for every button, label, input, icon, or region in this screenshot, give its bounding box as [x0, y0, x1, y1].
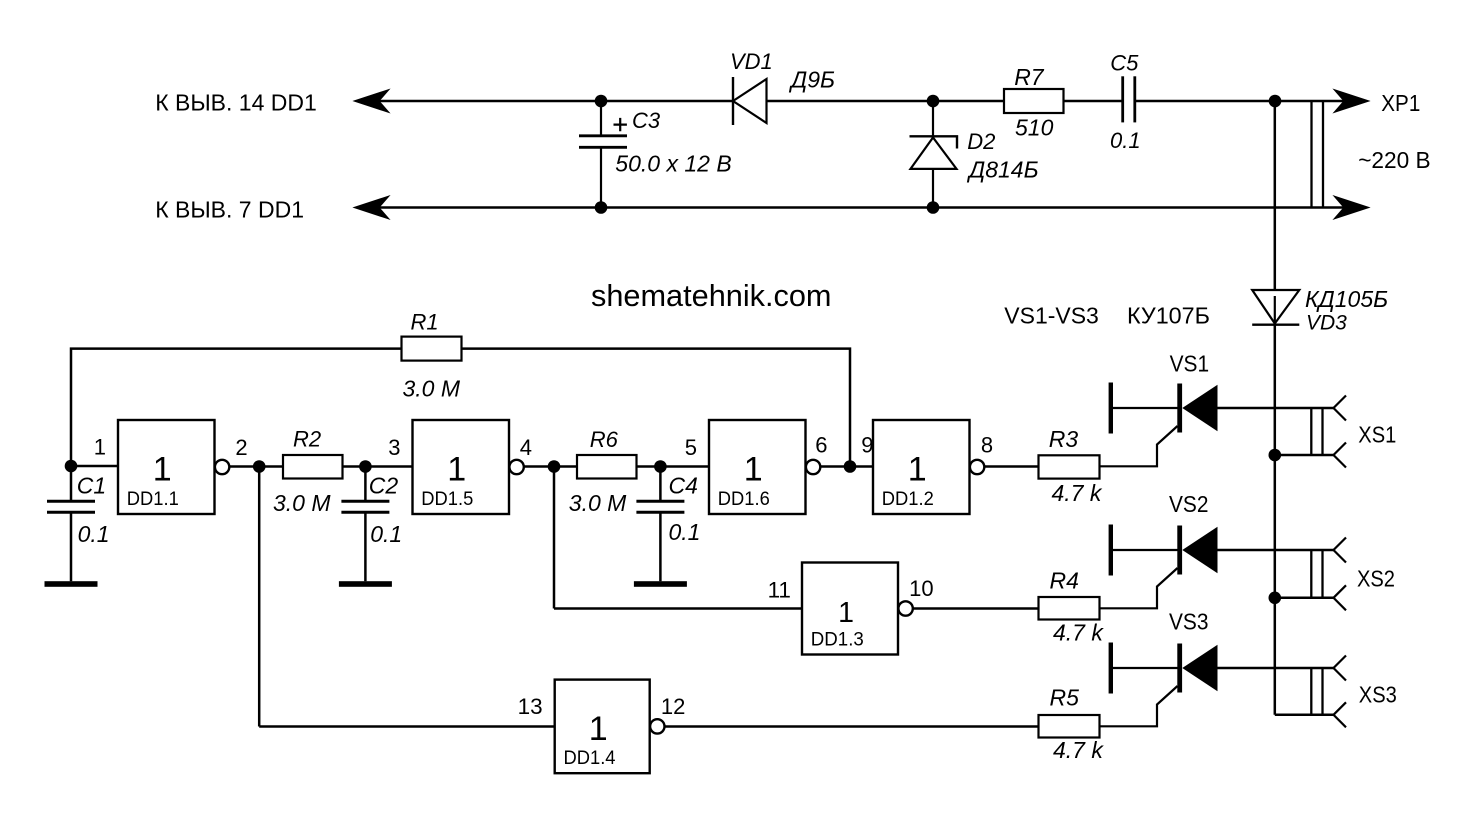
wire node to C4 [659, 467, 662, 502]
svg-text:XS3: XS3 [1359, 681, 1397, 707]
wire to DD1.4 input [259, 725, 555, 728]
logic inverter DD1.4 [555, 680, 665, 774]
logic inverter DD1.6 [709, 420, 820, 514]
node 4 junction [548, 460, 561, 473]
svg-text:3.0 M: 3.0 M [403, 375, 461, 401]
svg-text:11: 11 [768, 577, 791, 602]
resistor R5 [1039, 715, 1100, 738]
thyristor VS3 (sensor pad + SCR) [1100, 643, 1218, 727]
svg-text:C4: C4 [669, 473, 698, 499]
junction C3 top [595, 95, 608, 108]
resistor R6 [577, 455, 637, 479]
svg-text:510: 510 [1015, 115, 1054, 141]
wire node to C2 [364, 467, 367, 502]
svg-text:4: 4 [520, 435, 532, 460]
svg-text:R5: R5 [1050, 685, 1080, 711]
svg-text:C2: C2 [369, 472, 399, 498]
svg-text:К ВЫВ. 7 DD1: К ВЫВ. 7 DD1 [155, 197, 304, 223]
svg-text:shematehnik.com: shematehnik.com [591, 279, 832, 313]
wire VS1 anode to XS1 [1218, 407, 1334, 410]
wire R1 left to node 1 [71, 349, 402, 466]
svg-text:1: 1 [589, 710, 608, 748]
svg-text:C1: C1 [77, 472, 106, 498]
svg-text:XS1: XS1 [1358, 421, 1396, 447]
resistor R3 [1039, 455, 1100, 478]
svg-text:DD1.3: DD1.3 [811, 630, 864, 651]
svg-text:DD1.6: DD1.6 [718, 489, 770, 510]
svg-text:XS2: XS2 [1357, 565, 1395, 591]
svg-text:DD1.1: DD1.1 [127, 489, 179, 510]
svg-text:12: 12 [661, 694, 685, 719]
wire VS3 anode to XS3 [1218, 667, 1334, 670]
svg-text:VD3: VD3 [1306, 312, 1347, 335]
svg-text:D2: D2 [967, 129, 995, 154]
capacitor C1 [47, 501, 95, 512]
wire DD1.6 output to DD1.2 input [820, 465, 873, 468]
resistor R7 [1004, 89, 1064, 113]
svg-text:КУ107Б: КУ107Б [1127, 302, 1210, 328]
wire R1 right to node 9 [462, 349, 851, 467]
ground under C2 [339, 581, 392, 587]
wire to DD1.3 input [554, 607, 802, 610]
logic inverter DD1.1 [118, 420, 229, 514]
wire DD1.5 output to R6 [524, 465, 577, 468]
svg-text:C3: C3 [632, 108, 661, 133]
arrow to DD1 pin 7 [354, 196, 389, 219]
svg-text:3.0 M: 3.0 M [273, 490, 331, 516]
svg-text:VS1: VS1 [1170, 350, 1210, 376]
svg-text:DD1.4: DD1.4 [564, 748, 616, 769]
zener diode D2 [910, 101, 958, 208]
svg-text:VS2: VS2 [1169, 491, 1209, 517]
diode VD1 [733, 77, 767, 125]
svg-text:13: 13 [518, 694, 543, 719]
svg-text:4.7 k: 4.7 k [1053, 737, 1104, 763]
wire DD1.4 output to R5 [665, 725, 1039, 728]
svg-text:2: 2 [235, 435, 247, 460]
capacitor C2 [341, 501, 389, 512]
wire right bus vertical [1274, 101, 1277, 715]
arrow XP1 top contact [1334, 90, 1369, 113]
svg-text:0.1: 0.1 [1110, 128, 1141, 153]
svg-text:КД105Б: КД105Б [1305, 286, 1388, 312]
wire C1 to ground [70, 512, 73, 581]
junction D2 bottom [927, 201, 940, 214]
wire top rail left [377, 100, 733, 103]
wire bus to XS1 bottom [1275, 454, 1334, 457]
junction D2 top [927, 95, 940, 108]
socket XS1 [1311, 396, 1346, 468]
svg-text:VD1: VD1 [730, 49, 773, 74]
plug XP1 [1312, 100, 1324, 208]
svg-text:0.1: 0.1 [370, 521, 402, 547]
wire bus corner to XS3 bottom [1275, 714, 1334, 717]
node 1 junction [65, 460, 78, 473]
svg-text:R6: R6 [590, 427, 619, 452]
wire R2 to DD1.5 input [343, 465, 413, 468]
svg-text:R4: R4 [1050, 568, 1079, 594]
svg-text:1: 1 [153, 451, 172, 489]
wire R7 to C5 [1064, 100, 1123, 103]
svg-text:1: 1 [908, 451, 927, 489]
ground under C1 [45, 581, 98, 587]
svg-text:1: 1 [94, 435, 106, 460]
logic inverter DD1.2 [873, 420, 984, 514]
svg-text:1: 1 [838, 597, 854, 629]
wire node1 to DD1.1 input [71, 465, 118, 468]
svg-text:DD1.2: DD1.2 [882, 489, 934, 510]
wire node4 drop [553, 467, 556, 609]
capacitor C4 [636, 501, 684, 512]
svg-text:VS1-VS3: VS1-VS3 [1004, 302, 1099, 328]
resistor R2 [283, 455, 343, 479]
junction XS1 bottom [1269, 449, 1282, 462]
node 5 junction [654, 460, 667, 473]
svg-text:R2: R2 [293, 427, 321, 452]
wire C2 to ground [364, 512, 367, 581]
thyristor VS2 (sensor pad + SCR) [1100, 525, 1218, 609]
wire bottom rail [377, 206, 1345, 209]
svg-text:1: 1 [447, 451, 466, 489]
svg-text:8: 8 [981, 432, 993, 457]
svg-text:R1: R1 [411, 309, 439, 334]
svg-text:R7: R7 [1014, 64, 1045, 90]
wire node2 drop [258, 467, 261, 727]
svg-text:Д9Б: Д9Б [788, 67, 835, 93]
svg-text:R3: R3 [1049, 426, 1079, 452]
svg-text:0.1: 0.1 [669, 519, 701, 545]
svg-text:Д814Б: Д814Б [966, 156, 1039, 182]
wire VS2 anode to XS2 [1218, 549, 1334, 552]
junction XS2 bottom [1269, 592, 1282, 605]
svg-text:4.7 k: 4.7 k [1052, 480, 1103, 506]
logic inverter DD1.3 [802, 563, 913, 655]
svg-text:1: 1 [744, 451, 763, 489]
resistor R1 [402, 337, 462, 361]
diode VD3 [1252, 290, 1299, 325]
socket XS2 [1311, 538, 1346, 611]
capacitor C5 [1123, 76, 1135, 122]
capacitor C3 [579, 101, 627, 208]
svg-text:XP1: XP1 [1381, 90, 1420, 116]
wire DD1.3 output to R4 [913, 607, 1038, 610]
svg-text:0.1: 0.1 [78, 521, 110, 547]
wire R6 to DD1.6 input [637, 465, 710, 468]
junction C3 bottom [595, 201, 608, 214]
svg-text:6: 6 [815, 432, 827, 457]
svg-text:DD1.5: DD1.5 [421, 489, 473, 510]
wire top rail VD1 to R7 [767, 100, 1005, 103]
svg-text:9: 9 [861, 432, 873, 457]
node 2 junction [253, 460, 266, 473]
wire DD1.2 output to R3 [984, 465, 1038, 468]
svg-text:3: 3 [388, 435, 400, 460]
node 3 junction [359, 460, 372, 473]
logic inverter DD1.5 [413, 420, 524, 514]
svg-text:4.7 k: 4.7 k [1053, 620, 1104, 646]
wire DD1.1 output to R2 [229, 465, 283, 468]
svg-text:К ВЫВ. 14 DD1: К ВЫВ. 14 DD1 [155, 89, 317, 115]
arrow to DD1 pin 14 [354, 90, 389, 113]
arrow XP1 bottom contact [1334, 196, 1369, 219]
svg-text:VS3: VS3 [1169, 608, 1209, 634]
svg-text:5: 5 [685, 435, 697, 460]
svg-text:10: 10 [909, 576, 933, 601]
resistor R4 [1039, 597, 1100, 620]
wire C4 to ground [659, 512, 662, 581]
svg-text:~220 В: ~220 В [1358, 147, 1431, 173]
wire C5 to XP1 [1136, 100, 1345, 103]
svg-text:50.0 x 12 В: 50.0 x 12 В [615, 150, 731, 176]
wire bus to XS2 bottom [1275, 597, 1334, 600]
ground under C4 [634, 581, 687, 587]
thyristor VS1 (sensor pad + SCR) [1100, 383, 1218, 467]
svg-text:3.0 M: 3.0 M [569, 490, 627, 516]
svg-text:C5: C5 [1110, 50, 1139, 75]
node 9 junction [844, 460, 857, 473]
wire node to C1 [70, 467, 73, 502]
socket XS3 [1311, 656, 1346, 728]
junction bus top [1269, 95, 1282, 108]
